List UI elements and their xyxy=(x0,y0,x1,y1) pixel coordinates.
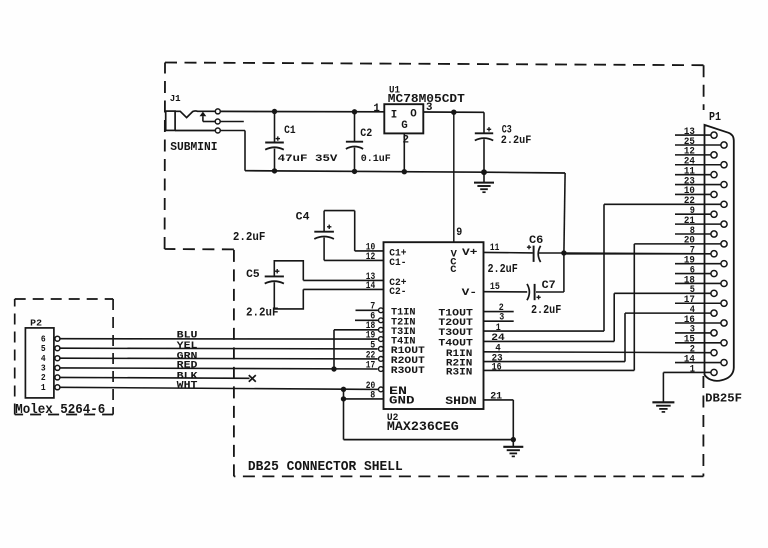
svg-text:SUBMINI: SUBMINI xyxy=(170,141,217,154)
svg-text:DB25 CONNECTOR SHELL: DB25 CONNECTOR SHELL xyxy=(248,459,403,475)
svg-text:12: 12 xyxy=(366,251,376,263)
svg-text:C4: C4 xyxy=(296,212,310,224)
svg-text:P2: P2 xyxy=(30,317,42,328)
svg-text:1: 1 xyxy=(690,363,695,375)
svg-text:C5: C5 xyxy=(246,269,260,281)
svg-text:C2-: C2- xyxy=(389,287,406,298)
svg-text:I: I xyxy=(391,110,397,122)
svg-text:2.2uF: 2.2uF xyxy=(531,304,561,317)
svg-text:2.2uF: 2.2uF xyxy=(233,231,266,244)
svg-text:T4OUT: T4OUT xyxy=(438,338,473,349)
svg-text:MAX236CEG: MAX236CEG xyxy=(387,419,459,434)
svg-text:WHT: WHT xyxy=(177,380,198,391)
svg-text:GND: GND xyxy=(389,396,415,408)
svg-text:2: 2 xyxy=(403,134,409,146)
svg-text:BLU: BLU xyxy=(177,330,198,341)
svg-text:V+: V+ xyxy=(462,248,477,259)
svg-text:Molex 5264-6: Molex 5264-6 xyxy=(15,402,105,418)
svg-text:P1: P1 xyxy=(709,110,721,124)
svg-text:RED: RED xyxy=(177,360,198,371)
svg-text:2.2uF: 2.2uF xyxy=(488,263,518,276)
svg-text:C1: C1 xyxy=(284,125,296,137)
svg-text:R3OUT: R3OUT xyxy=(391,366,425,377)
svg-text:3: 3 xyxy=(426,102,432,114)
svg-text:1: 1 xyxy=(373,103,380,115)
svg-text:2.2uF: 2.2uF xyxy=(501,135,532,147)
svg-text:G: G xyxy=(401,120,407,132)
svg-text:DB25F: DB25F xyxy=(705,391,742,405)
svg-text:47uF 35V: 47uF 35V xyxy=(278,153,339,165)
svg-text:14: 14 xyxy=(366,280,376,292)
svg-text:8: 8 xyxy=(370,389,375,401)
svg-text:V-: V- xyxy=(462,288,477,299)
svg-text:J1: J1 xyxy=(170,93,181,104)
svg-text:O: O xyxy=(410,108,417,120)
svg-text:1: 1 xyxy=(41,382,46,393)
svg-text:C6: C6 xyxy=(529,235,543,247)
svg-text:0.1uF: 0.1uF xyxy=(361,153,391,165)
svg-text:C: C xyxy=(450,264,456,276)
svg-text:16: 16 xyxy=(492,361,502,373)
svg-text:C2: C2 xyxy=(360,128,372,140)
svg-text:9: 9 xyxy=(456,227,462,239)
svg-text:R3IN: R3IN xyxy=(446,367,473,378)
svg-text:21: 21 xyxy=(490,391,502,403)
svg-text:C7: C7 xyxy=(542,280,556,292)
svg-text:SHDN: SHDN xyxy=(445,396,476,408)
svg-text:C1-: C1- xyxy=(389,258,406,269)
